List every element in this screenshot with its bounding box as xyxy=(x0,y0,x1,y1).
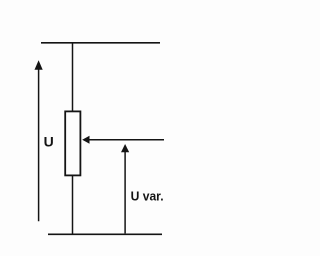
wire from resistor to bottom rail xyxy=(72,175,74,234)
label U xyxy=(44,134,54,150)
top rail wire xyxy=(41,42,160,44)
bottom rail wire xyxy=(48,233,162,235)
svg-text:U: U xyxy=(44,134,54,150)
voltage arrow U var. (pointing up) xyxy=(121,144,129,233)
label U var. xyxy=(131,189,164,204)
voltage arrow U (left, pointing up) xyxy=(35,60,43,221)
wire from top rail to resistor xyxy=(72,43,74,112)
wiper wire (horizontal) xyxy=(88,139,164,141)
wiper arrowhead into resistor xyxy=(82,136,89,144)
resistor (potentiometer body) xyxy=(65,111,80,175)
svg-text:U var.: U var. xyxy=(131,189,164,204)
